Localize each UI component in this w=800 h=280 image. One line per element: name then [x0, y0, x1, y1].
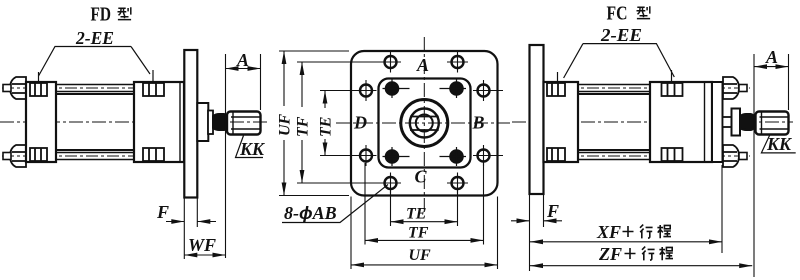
horizontal centerline	[336, 122, 510, 124]
rod nut FD (dark)	[213, 114, 227, 130]
svg-text:F: F	[546, 201, 559, 221]
tie rod tip top	[3, 85, 11, 92]
tie rod circle TL	[383, 79, 410, 98]
dim A FD line	[226, 68, 261, 70]
svg-text:2-EE: 2-EE	[75, 28, 114, 48]
dim XF line	[530, 241, 722, 243]
tie rod pair top FD	[56, 85, 134, 92]
center outer circle	[401, 100, 448, 147]
svg-text:FD: FD	[91, 4, 112, 26]
svg-text:KK: KK	[239, 139, 266, 159]
tube FD	[56, 94, 134, 150]
bolt hole right-bottom	[473, 145, 503, 166]
bolt hole left-top	[356, 80, 377, 101]
step FD	[208, 111, 213, 135]
front cap FD	[134, 82, 184, 162]
left dim TE ext lines	[320, 91, 359, 156]
rod nut FC (dark)	[740, 114, 754, 130]
dim F FC	[511, 220, 562, 222]
svg-text:B: B	[472, 113, 485, 133]
bottom dim TE line	[391, 221, 458, 223]
bolt hole right-top	[473, 80, 503, 101]
rear port box top	[30, 83, 47, 96]
tie rod centerline bottom FC	[545, 155, 750, 157]
boss FD	[197, 103, 208, 141]
leader 2-EE FC	[564, 44, 675, 78]
tie rod centerline bottom FD	[2, 155, 198, 157]
hex nut front top FC	[723, 77, 739, 99]
svg-text:UF: UF	[277, 113, 294, 136]
label ZF+行程	[598, 244, 673, 264]
rear cap FC	[544, 82, 579, 162]
dim A FD ext lines	[226, 54, 261, 258]
svg-text:XF: XF	[596, 222, 621, 242]
hex nut rear bottom	[10, 145, 26, 167]
flange ext lines FD	[184, 198, 197, 260]
front cap FC	[650, 82, 712, 162]
svg-text:FC: FC	[607, 3, 628, 25]
svg-text:A: A	[416, 55, 429, 75]
left dim UF line	[283, 51, 285, 196]
leader 8-phiAB	[282, 185, 388, 223]
tie rod circle BL	[383, 147, 410, 166]
dim A FC line	[754, 66, 789, 68]
leader tick front port	[152, 70, 154, 100]
bolt hole bottom-left	[380, 173, 401, 194]
tie rod centerline top FC	[545, 87, 750, 89]
center middle circle	[410, 109, 439, 138]
label XF+行程	[596, 222, 671, 242]
svg-text:A: A	[236, 50, 249, 70]
front port box bottom FC	[662, 148, 683, 161]
title FC 型	[607, 3, 651, 25]
svg-text:KK: KK	[766, 134, 793, 154]
svg-text:2-EE: 2-EE	[600, 25, 642, 45]
rod FC	[723, 117, 732, 127]
bolt hole bottom-right	[447, 173, 468, 194]
svg-text:WF: WF	[188, 235, 216, 255]
rear cap FD	[26, 82, 56, 162]
title FD 型	[91, 4, 132, 26]
bottom dim TF ext lines	[365, 163, 484, 245]
svg-text:TE: TE	[406, 206, 426, 223]
plate	[351, 51, 498, 196]
center inner circle	[416, 115, 433, 132]
leader KK FC	[761, 135, 795, 153]
bottom dim UF line	[351, 264, 498, 266]
tube FC	[578, 94, 650, 150]
bolt hole top-left	[380, 52, 401, 73]
dim WF	[184, 254, 225, 256]
leader tick rear port	[38, 72, 40, 102]
flange FD	[184, 50, 197, 198]
leader 2-EE	[39, 47, 151, 77]
front port box bottom	[143, 148, 164, 161]
leader tick FC rear port	[557, 72, 559, 102]
svg-text:C: C	[415, 167, 428, 187]
front port box top FC	[662, 83, 683, 96]
bottom dim TE ext lines	[391, 191, 458, 226]
boss ring FC	[732, 109, 741, 136]
front cap joint line FC	[704, 82, 706, 162]
flange ext lines FC	[530, 194, 544, 271]
tie rod pair top FC	[578, 85, 650, 92]
vertical centerline	[423, 37, 425, 212]
svg-text:8-ϕAB: 8-ϕAB	[284, 203, 337, 223]
rear port box bottom	[30, 148, 47, 161]
svg-text:TE: TE	[318, 117, 335, 137]
rod flats chords	[410, 117, 439, 131]
tie rod tip bottom	[3, 153, 11, 160]
svg-text:TF: TF	[408, 225, 429, 242]
rear port box top FC	[547, 83, 565, 96]
left dim TF line	[301, 62, 303, 183]
tie rod circle BR	[440, 147, 467, 166]
hex nut front bottom FC	[723, 145, 739, 167]
rear port box bottom FC	[547, 148, 565, 161]
leader KK FD	[236, 136, 264, 158]
dim ZF line	[530, 265, 752, 267]
leader tick FC front port	[671, 70, 673, 100]
flange FC	[530, 45, 544, 194]
bolt hole top-right	[447, 52, 468, 73]
axis centerline FC	[512, 121, 793, 123]
tie rod centerline top FD	[2, 87, 198, 89]
tie rod pair bottom FD	[56, 153, 134, 160]
bottom dim UF ext lines	[351, 197, 498, 270]
svg-text:UF: UF	[409, 247, 432, 264]
dim F FD	[166, 221, 216, 223]
tie rod tip bottom FC	[739, 153, 747, 160]
svg-text:TF: TF	[295, 116, 312, 137]
tie rod tip top FC	[739, 85, 747, 92]
svg-text:F: F	[156, 202, 169, 222]
thread FC	[756, 112, 789, 135]
svg-text:A: A	[765, 47, 778, 67]
XF ext line	[721, 165, 723, 253]
dim A FC ext lines	[754, 54, 789, 277]
axis centerline FD	[0, 121, 268, 123]
hex nut rear top	[10, 77, 26, 99]
bottom dim TF line	[365, 239, 484, 241]
bolt hole left-bottom	[356, 145, 377, 166]
gland plate FC	[712, 82, 723, 162]
front port box top	[143, 83, 164, 96]
svg-text:D: D	[353, 113, 367, 133]
thread FD	[227, 112, 261, 135]
left dim TE line	[324, 91, 326, 156]
svg-text:ZF: ZF	[598, 244, 622, 264]
inner square	[379, 79, 471, 168]
tie rod circle TR	[440, 79, 467, 98]
tie rod pair bottom FC	[578, 153, 650, 160]
left dim TF ext lines	[297, 62, 386, 183]
left dims: UF ext lines	[279, 51, 349, 196]
front cap joint line	[179, 82, 181, 162]
